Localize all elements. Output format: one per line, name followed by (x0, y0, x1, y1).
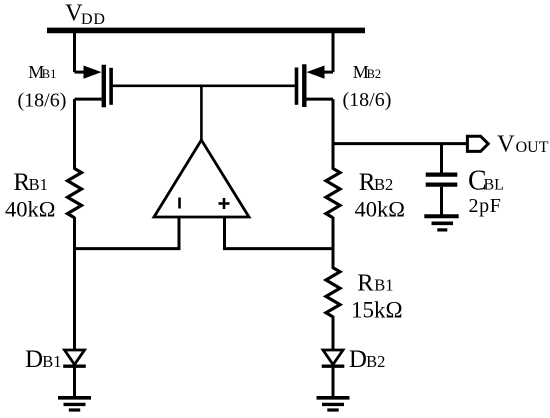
svg-text:DD: DD (81, 11, 106, 28)
wire VOUT (333, 142, 468, 145)
transistor MB1 (75, 30, 112, 107)
label RB1 (13, 169, 47, 196)
transistor MB2 (297, 30, 334, 107)
svg-text:R: R (357, 270, 374, 297)
label RB2 (359, 169, 393, 196)
resistor RB1 (68, 169, 82, 218)
wire RB2 to RB3 (332, 217, 335, 269)
label MB2 (353, 62, 381, 82)
wire op-amp output (200, 86, 203, 142)
label DB1 (25, 346, 61, 373)
label RB1 15k (357, 270, 393, 297)
label DB2 (349, 346, 385, 373)
label VDD (65, 0, 106, 28)
svg-text:B2: B2 (366, 352, 385, 371)
diode DB1 (63, 350, 86, 397)
wire MB2 drain to RB2 (332, 99, 335, 169)
wire MB1 drain to RB1 (73, 99, 76, 169)
op-amp U1 (154, 140, 249, 217)
svg-text:V: V (497, 130, 515, 157)
ground capacitor (424, 216, 458, 230)
svg-text:OUT: OUT (516, 139, 549, 156)
VDD rail (47, 28, 365, 34)
svg-text:B2: B2 (374, 175, 393, 194)
svg-text:40kΩ: 40kΩ (355, 197, 405, 222)
label MB1 (28, 62, 56, 82)
svg-text:B1: B1 (42, 352, 61, 371)
diode DB2 (322, 350, 345, 397)
svg-text:B2: B2 (367, 67, 382, 81)
svg-text:B1: B1 (29, 175, 48, 194)
port VOUT (467, 136, 488, 151)
svg-text:BL: BL (484, 177, 504, 194)
svg-text:D: D (349, 346, 367, 373)
svg-text:(18/6): (18/6) (343, 89, 392, 111)
wire RB3 to DB2 (332, 316, 335, 351)
svg-text:B1: B1 (42, 67, 57, 81)
wire gate bus MB1-MB2 (111, 85, 297, 88)
wire inverting input (75, 217, 180, 249)
ground left (58, 398, 91, 410)
label VOUT (497, 130, 549, 157)
wire RB1 to DB1 (73, 217, 76, 351)
svg-text:B1: B1 (374, 276, 393, 295)
resistor RB3 (labeled RB1 15k) (326, 268, 340, 317)
ground right (317, 398, 350, 410)
wire noninverting input (225, 217, 334, 249)
label CBL (468, 166, 504, 197)
svg-text:15kΩ: 15kΩ (351, 297, 403, 322)
capacitor CBL (426, 144, 458, 215)
svg-text:D: D (25, 346, 43, 373)
resistor RB2 (326, 169, 340, 218)
svg-text:(18/6): (18/6) (18, 89, 67, 111)
svg-text:2pF: 2pF (469, 195, 502, 217)
svg-text:40kΩ: 40kΩ (5, 197, 55, 222)
